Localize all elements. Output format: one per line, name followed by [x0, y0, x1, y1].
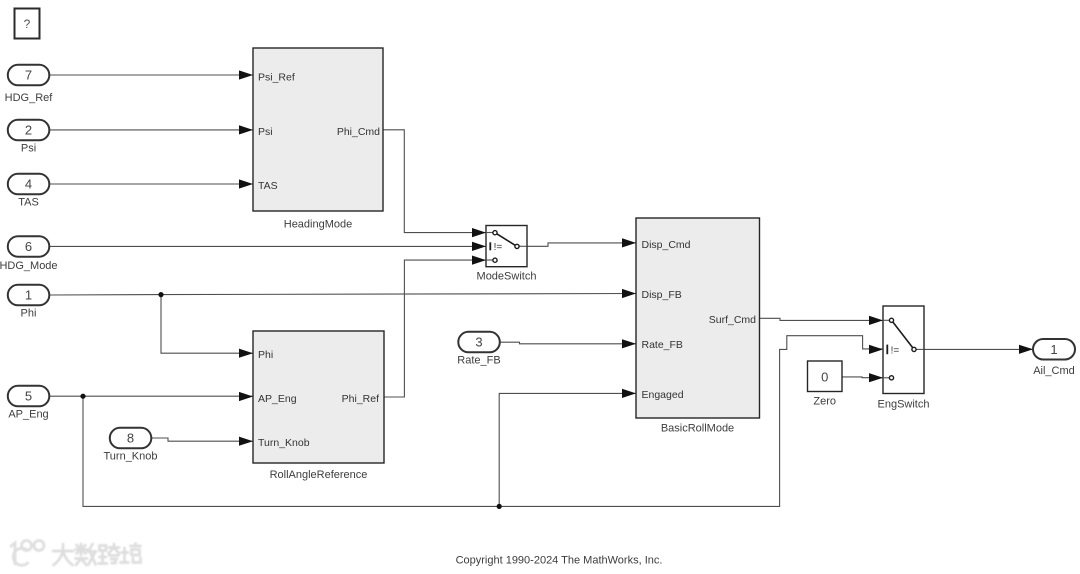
- svg-text:AP_Eng: AP_Eng: [258, 393, 297, 405]
- svg-text:Psi_Ref: Psi_Ref: [258, 71, 295, 83]
- svg-text:Turn_Knob: Turn_Knob: [258, 437, 310, 449]
- svg-text:BasicRollMode: BasicRollMode: [661, 423, 734, 435]
- svg-text:1: 1: [1050, 342, 1057, 357]
- svg-text:!=: !=: [891, 345, 900, 356]
- svg-text:Surf_Cmd: Surf_Cmd: [709, 314, 756, 326]
- svg-text:Rate_FB: Rate_FB: [642, 339, 683, 351]
- svg-text:!=: !=: [494, 242, 503, 253]
- svg-text:Phi_Ref: Phi_Ref: [342, 393, 379, 405]
- svg-text:2: 2: [25, 123, 32, 138]
- svg-text:3: 3: [475, 335, 482, 350]
- svg-text:Turn_Knob: Turn_Knob: [103, 451, 157, 463]
- svg-text:7: 7: [25, 68, 32, 83]
- svg-text:RollAngleReference: RollAngleReference: [270, 469, 368, 481]
- svg-text:HDG_Mode: HDG_Mode: [0, 260, 58, 272]
- svg-text:Psi: Psi: [21, 143, 36, 155]
- svg-text:8: 8: [127, 431, 134, 446]
- svg-text:6: 6: [25, 239, 32, 254]
- svg-text:Ail_Cmd: Ail_Cmd: [1033, 365, 1075, 377]
- svg-text:1: 1: [25, 288, 32, 303]
- svg-text:4: 4: [25, 177, 32, 192]
- svg-text:Disp_FB: Disp_FB: [642, 289, 682, 301]
- svg-text:5: 5: [25, 389, 32, 404]
- svg-text:0: 0: [821, 369, 828, 384]
- svg-text:HDG_Ref: HDG_Ref: [5, 92, 54, 104]
- svg-text:HeadingMode: HeadingMode: [284, 219, 353, 231]
- svg-text:AP_Eng: AP_Eng: [8, 409, 48, 421]
- svg-text:Phi: Phi: [258, 349, 273, 361]
- svg-text:TAS: TAS: [258, 180, 278, 192]
- svg-text:?: ?: [24, 17, 31, 31]
- svg-text:ModeSwitch: ModeSwitch: [477, 271, 537, 283]
- svg-text:TAS: TAS: [18, 197, 39, 209]
- svg-text:Phi_Cmd: Phi_Cmd: [337, 126, 380, 138]
- svg-text:Disp_Cmd: Disp_Cmd: [642, 239, 691, 251]
- svg-text:Copyright 1990-2024 The MathWo: Copyright 1990-2024 The MathWorks, Inc.: [456, 555, 663, 567]
- svg-text:Zero: Zero: [813, 396, 836, 408]
- svg-text:Engaged: Engaged: [642, 389, 684, 401]
- svg-text:EngSwitch: EngSwitch: [878, 398, 930, 410]
- svg-text:Phi: Phi: [21, 308, 37, 320]
- svg-text:Rate_FB: Rate_FB: [457, 355, 500, 367]
- svg-text:Psi: Psi: [258, 126, 273, 138]
